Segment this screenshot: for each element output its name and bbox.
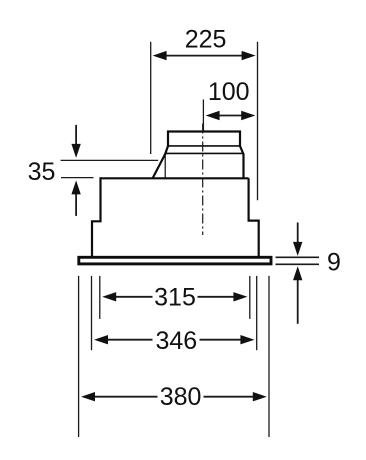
collar left inner edge (164, 154, 166, 177)
dimension 225 arrow line (165, 55, 243, 57)
dimension 9 extension line lower (276, 263, 320, 265)
dimension 9 extension line upper (276, 256, 320, 258)
dimension 9 lower arrow shaft (297, 280, 299, 324)
dimension 346 left arrow (107, 339, 153, 341)
dimension 380 right arrow (204, 396, 255, 398)
svg-text:346: 346 (155, 327, 197, 355)
dimension 225/100 extension line right (257, 42, 259, 201)
collar taper line lower (165, 152, 243, 154)
bottom flange (79, 257, 271, 264)
svg-text:380: 380 (160, 383, 202, 411)
dimension 346 extension line left (91, 276, 93, 350)
dimension 35 lower arrow shaft (75, 194, 77, 216)
dimension 315 right arrow (198, 296, 235, 298)
dimension 9 lower arrowhead (293, 266, 302, 280)
dimension 225 extension line left (150, 42, 152, 154)
dimension 9 upper arrow shaft (297, 223, 299, 244)
dimension 100 left arrowhead (206, 111, 220, 120)
svg-text:35: 35 (28, 158, 56, 186)
svg-text:100: 100 (208, 78, 250, 106)
dimension 380 left arrow (94, 396, 158, 398)
dimension 35 extension line lower (61, 177, 94, 179)
hood body outline (92, 132, 259, 258)
svg-text:225: 225 (185, 25, 227, 53)
collar taper line upper (168, 145, 240, 147)
dimension 346 extension line right (256, 276, 258, 350)
dimension 100 extension line left (202, 100, 204, 131)
dimension 35 upper arrowhead (71, 144, 80, 158)
body right side with step (249, 178, 259, 257)
body top edge (101, 177, 249, 179)
svg-text:9: 9 (327, 248, 341, 276)
dimension 315 left arrow (115, 296, 153, 298)
duct collar and slope (153, 132, 244, 179)
dimension 35 extension line upper (61, 159, 159, 161)
dimension 9 upper arrowhead (293, 242, 302, 256)
dimension 346 right arrow (200, 339, 242, 341)
svg-text:315: 315 (154, 283, 196, 311)
dimension 315 extension line right (249, 276, 251, 319)
centerline (202, 124, 204, 236)
dimension 380 extension line left (78, 276, 80, 437)
dimension 225 right arrowhead (242, 51, 256, 60)
dimension 100 right arrowhead (241, 111, 255, 120)
dimension 380 extension line right (268, 276, 270, 437)
dimension 225 left arrowhead (153, 51, 167, 60)
dimension 315 extension line left (99, 276, 101, 319)
dimension 35 lower arrowhead (71, 180, 80, 194)
dimension 100 arrow line (218, 115, 242, 117)
body left side with step (92, 177, 101, 257)
dimension 35 upper arrow shaft (75, 125, 77, 145)
